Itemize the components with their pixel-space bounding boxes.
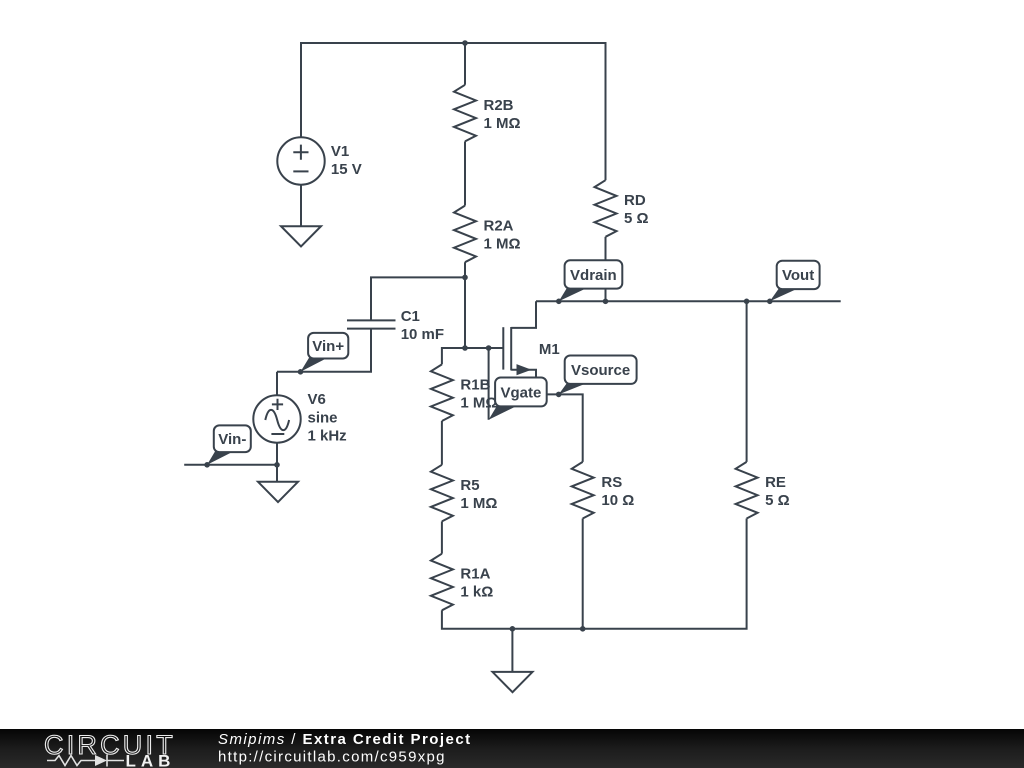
- wire C1 bottom lead to Vin+ node: [277, 329, 371, 372]
- svg-text:1 MΩ: 1 MΩ: [484, 236, 521, 253]
- junction node gate wire: [462, 345, 468, 351]
- label R2B value: [484, 97, 521, 132]
- svg-text:R1A: R1A: [460, 566, 490, 583]
- node Vdrain anchor: [556, 299, 562, 305]
- wire RS bottom lead: [582, 519, 584, 629]
- svg-text:RS: RS: [601, 474, 622, 491]
- resistor R2A: [454, 206, 476, 263]
- resistor R5: [431, 465, 453, 522]
- junction node RD bottom: [603, 299, 609, 305]
- logo CIRCUIT LAB: [44, 730, 176, 768]
- resistor RS: [572, 462, 594, 519]
- wire Vin- stub: [184, 464, 277, 466]
- ground below V6: [258, 482, 298, 502]
- wire V1 bottom lead: [300, 185, 302, 227]
- wire V6 bottom lead to ground: [276, 443, 278, 482]
- svg-text:R5: R5: [460, 477, 479, 494]
- wire RD bottom lead: [605, 237, 607, 301]
- flag Vgate: [489, 378, 547, 420]
- node Vout anchor: [767, 299, 773, 305]
- label V1 value: [331, 143, 362, 178]
- footer bar: [0, 729, 1024, 768]
- node Vin- anchor: [204, 462, 210, 468]
- junction node top bus / R2B: [462, 40, 468, 46]
- flag Vsource: [559, 356, 637, 395]
- wire V6 top lead: [276, 372, 278, 396]
- mosfet M1: [503, 301, 536, 394]
- svg-text:Vdrain: Vdrain: [570, 267, 617, 284]
- ground bottom center: [493, 672, 533, 692]
- svg-text:5 Ω: 5 Ω: [624, 210, 649, 227]
- junction node V6 bottom: [274, 462, 280, 468]
- svg-text:Vin+: Vin+: [312, 338, 344, 355]
- wire between R5 and R1A: [441, 521, 443, 553]
- resistor R2B: [454, 85, 476, 142]
- wire Vgate probe stub: [488, 348, 490, 420]
- svg-text:Vout: Vout: [782, 267, 814, 284]
- label R2A value: [484, 218, 521, 253]
- label C1 value: [401, 308, 444, 343]
- wire between R2B and R2A: [464, 141, 466, 205]
- wire gate net: [442, 348, 503, 364]
- flag Vin-: [207, 425, 251, 464]
- label V6 value: [308, 391, 347, 445]
- ground below V1: [281, 226, 321, 246]
- svg-text:10 mF: 10 mF: [401, 326, 444, 343]
- svg-text:LAB: LAB: [126, 752, 176, 768]
- flag Vout: [770, 261, 820, 302]
- svg-text:M1: M1: [539, 341, 560, 358]
- wire between R1B and R5: [441, 421, 443, 465]
- label R5 value: [460, 477, 497, 512]
- resistor RE: [736, 462, 758, 519]
- svg-text:Vsource: Vsource: [571, 362, 630, 379]
- svg-text:1 MΩ: 1 MΩ: [460, 495, 497, 512]
- capacitor C1: [347, 320, 396, 328]
- junction node bottom ground: [510, 626, 516, 632]
- junction node Vgate stub: [486, 345, 492, 351]
- svg-text:V1: V1: [331, 143, 349, 160]
- wire source net M1 to RS: [536, 394, 583, 462]
- node Vin+ anchor: [298, 369, 304, 375]
- voltage source V1: [277, 137, 324, 184]
- junction node RS bottom: [580, 626, 586, 632]
- label R1B value: [460, 376, 497, 411]
- wire top bus from V1 to RD: [301, 43, 606, 180]
- svg-text:Smipims / Extra Credit Project: Smipims / Extra Credit Project: [218, 731, 472, 748]
- resistor R1A: [431, 554, 453, 611]
- svg-text:Vgate: Vgate: [500, 384, 541, 401]
- resistor RD: [595, 180, 617, 237]
- svg-text:1 MΩ: 1 MΩ: [484, 115, 521, 132]
- svg-text:RE: RE: [765, 474, 786, 491]
- svg-text:V6: V6: [308, 391, 326, 408]
- wire bottom bus R1A to RE: [442, 519, 747, 629]
- svg-text:1 kΩ: 1 kΩ: [460, 584, 493, 601]
- wire drain bus Vout net: [536, 300, 841, 302]
- svg-text:http://circuitlab.com/c959xpg: http://circuitlab.com/c959xpg: [218, 749, 446, 766]
- label R1A value: [460, 566, 493, 601]
- svg-text:5 Ω: 5 Ω: [765, 492, 790, 509]
- svg-text:C1: C1: [401, 308, 420, 325]
- svg-text:1 kHz: 1 kHz: [308, 428, 347, 445]
- svg-text:10 Ω: 10 Ω: [601, 492, 634, 509]
- label RE value: [765, 474, 790, 509]
- svg-text:sine: sine: [308, 410, 338, 427]
- resistor R1B: [431, 364, 453, 421]
- flag Vin+: [301, 333, 349, 372]
- voltage source V6 (sine): [253, 395, 300, 442]
- svg-text:R2A: R2A: [484, 218, 514, 235]
- wire C1 top branch: [371, 277, 465, 320]
- svg-text:Vin-: Vin-: [218, 431, 246, 448]
- svg-text:1 MΩ: 1 MΩ: [460, 394, 497, 411]
- flag Vdrain: [559, 260, 623, 301]
- node Vsource anchor: [556, 392, 562, 398]
- svg-text:R2B: R2B: [484, 97, 514, 114]
- svg-text:15 V: 15 V: [331, 161, 362, 178]
- label RS value: [601, 474, 634, 509]
- junction node RE top: [744, 299, 750, 305]
- svg-text:R1B: R1B: [460, 376, 490, 393]
- wire ground stub bottom: [511, 629, 513, 672]
- junction node C1 branch: [462, 275, 468, 281]
- svg-text:RD: RD: [624, 192, 646, 209]
- wire RE top lead: [746, 301, 748, 462]
- label RD value: [624, 192, 649, 227]
- wire R2A bottom to gate node: [464, 262, 466, 348]
- wire R2B top lead: [464, 43, 466, 85]
